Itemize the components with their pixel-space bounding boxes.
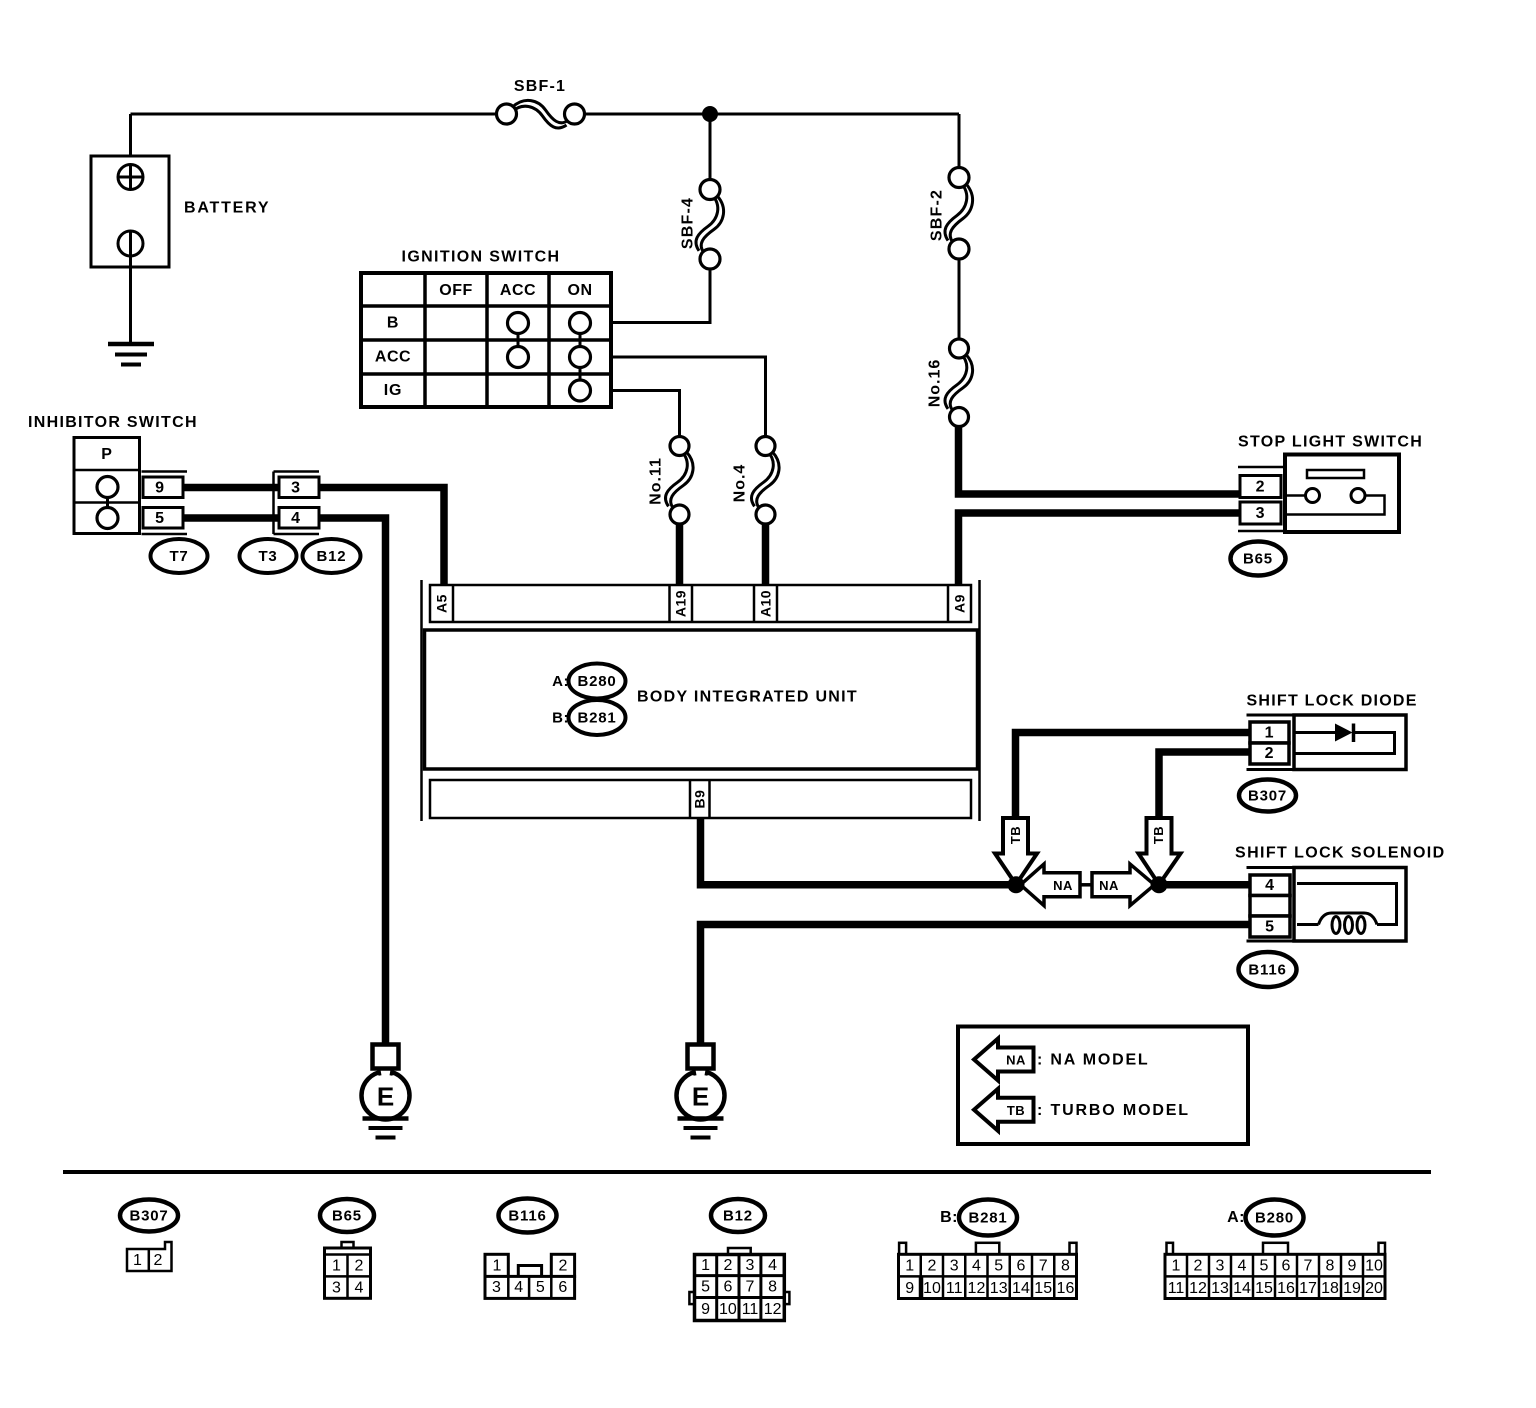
svg-text:8: 8	[1326, 1258, 1335, 1275]
svg-text:4: 4	[291, 510, 301, 527]
svg-text:1: 1	[1172, 1258, 1181, 1275]
wire SBF-2 to No.16	[958, 259, 961, 339]
svg-text:A5: A5	[434, 594, 450, 613]
svg-text:7: 7	[1304, 1258, 1313, 1275]
svg-text:20: 20	[1365, 1280, 1383, 1297]
svg-text:14: 14	[1012, 1280, 1030, 1297]
battery	[91, 156, 169, 344]
svg-text:10: 10	[719, 1301, 737, 1318]
connector blank cell	[1250, 896, 1290, 917]
svg-text:7: 7	[746, 1279, 755, 1296]
legend box	[958, 1027, 1248, 1145]
svg-text:2: 2	[1194, 1258, 1203, 1275]
arrow NA right	[1092, 864, 1155, 906]
wire solenoid pin 5 to ground	[701, 925, 1252, 1047]
svg-text:1: 1	[133, 1252, 142, 1269]
wire NA link	[1080, 883, 1092, 887]
svg-text:1: 1	[701, 1257, 710, 1274]
connector oval B:B281	[552, 700, 625, 735]
svg-text:3: 3	[291, 479, 301, 496]
label SBF-2	[929, 189, 946, 241]
wire pin 4 to ground	[318, 518, 386, 1046]
wire SBF-1 to junction and on to SBF-2 drop	[584, 113, 959, 116]
svg-text:ON: ON	[568, 282, 593, 299]
wire diode pin 1 branch	[1016, 733, 1252, 819]
svg-text:A:: A:	[552, 673, 569, 690]
wire stop light switch pin 3 to A9	[959, 513, 1243, 586]
svg-text:6: 6	[558, 1279, 567, 1296]
svg-text:11: 11	[946, 1280, 963, 1297]
connector oval B65 (pinout)	[320, 1199, 374, 1232]
svg-text:4: 4	[1238, 1258, 1247, 1275]
connector oval B12	[303, 539, 361, 573]
svg-text:B:: B:	[940, 1209, 958, 1226]
shift lock solenoid connector bracket	[1247, 868, 1295, 942]
shift lock solenoid box	[1294, 868, 1406, 942]
svg-text:ACC: ACC	[500, 282, 536, 299]
svg-text:E: E	[377, 1082, 394, 1112]
pin A5	[434, 594, 450, 613]
svg-text:2: 2	[559, 1258, 568, 1275]
svg-text:A10: A10	[758, 590, 774, 617]
wire SBF-4 to ignition switch B	[611, 269, 710, 323]
svg-text:2: 2	[1265, 745, 1275, 762]
svg-text:B280: B280	[577, 673, 616, 690]
svg-text:No.4: No.4	[732, 464, 749, 503]
svg-text:B:: B:	[552, 710, 569, 727]
node B	[1151, 876, 1168, 893]
separator line	[63, 1170, 1431, 1174]
connector oval B65	[1231, 542, 1286, 576]
wire pin 9 to pin 3	[183, 484, 280, 492]
svg-text:9: 9	[905, 1280, 914, 1297]
battery ground	[108, 344, 154, 365]
svg-text:11: 11	[1168, 1280, 1185, 1297]
svg-text:SBF-1: SBF-1	[514, 78, 566, 95]
connector T3 bracket	[274, 472, 320, 535]
wire node B to solenoid pin 4	[1164, 881, 1251, 889]
svg-text:A9: A9	[952, 594, 968, 613]
svg-text:5: 5	[701, 1279, 710, 1296]
svg-text:12: 12	[764, 1301, 782, 1318]
svg-text:5: 5	[1265, 919, 1275, 936]
body integrated unit bracket right	[978, 580, 981, 821]
svg-text:19: 19	[1343, 1280, 1361, 1297]
svg-text:B307: B307	[1248, 788, 1287, 805]
svg-text:2: 2	[355, 1258, 364, 1275]
svg-text:6: 6	[1016, 1258, 1025, 1275]
svg-text:3: 3	[746, 1257, 755, 1274]
connector B280 pinout	[1165, 1243, 1385, 1299]
ignition switch contacts ACC column	[508, 313, 529, 368]
label No.11	[648, 457, 665, 505]
svg-text:8: 8	[1061, 1258, 1070, 1275]
svg-text:8: 8	[768, 1279, 777, 1296]
svg-text:15: 15	[1034, 1280, 1052, 1297]
pin 3	[279, 477, 319, 498]
wire ignition IG to fuse No.11	[611, 391, 680, 437]
svg-text:B12: B12	[317, 548, 347, 565]
wire battery positive vertical	[129, 114, 132, 190]
svg-text:16: 16	[1277, 1280, 1295, 1297]
wire pin 3 to A5	[318, 488, 444, 587]
svg-text:4: 4	[355, 1279, 364, 1296]
svg-text:SHIFT LOCK SOLENOID: SHIFT LOCK SOLENOID	[1235, 845, 1446, 862]
svg-text:1: 1	[493, 1258, 502, 1275]
wire fuse No.11 to A19	[676, 524, 684, 586]
connector B281 pinout	[899, 1243, 1077, 1299]
svg-text:SHIFT LOCK DIODE: SHIFT LOCK DIODE	[1247, 693, 1418, 710]
shift lock diode connector bracket	[1247, 715, 1295, 770]
svg-text:B65: B65	[1243, 551, 1273, 568]
wire fuse No.4 to A10	[762, 524, 770, 586]
stop light switch connector bracket	[1238, 467, 1286, 531]
svg-text:No.16: No.16	[927, 359, 944, 408]
connector oval B116 (pinout)	[499, 1199, 557, 1233]
svg-text:17: 17	[1299, 1280, 1317, 1297]
svg-text:9: 9	[701, 1301, 710, 1318]
arrow TB right	[1139, 818, 1181, 885]
svg-text:9: 9	[1348, 1258, 1357, 1275]
svg-text:: TURBO MODEL: : TURBO MODEL	[1037, 1102, 1190, 1119]
svg-text:INHIBITOR SWITCH: INHIBITOR SWITCH	[28, 414, 198, 431]
ground E left	[362, 1045, 410, 1138]
svg-text:1: 1	[1265, 725, 1275, 742]
ground E right	[677, 1045, 725, 1138]
svg-text:T7: T7	[169, 548, 188, 565]
svg-text:5: 5	[536, 1279, 545, 1296]
wire B9 to node A	[701, 817, 1014, 885]
svg-text:B: B	[387, 315, 399, 332]
pin A19	[673, 590, 689, 617]
solenoid coil L1	[1297, 884, 1397, 934]
svg-text:T3: T3	[258, 548, 277, 565]
pin 4	[279, 508, 319, 529]
svg-text:4: 4	[972, 1258, 981, 1275]
svg-text:12: 12	[968, 1280, 986, 1297]
fuse No.11	[665, 437, 693, 525]
inhibitor switch	[74, 438, 140, 534]
svg-text:P: P	[101, 446, 112, 463]
svg-text:14: 14	[1233, 1280, 1251, 1297]
svg-text:B12: B12	[723, 1208, 753, 1225]
svg-text:TB: TB	[1151, 826, 1166, 844]
legend arrow TB	[974, 1089, 1034, 1131]
fuse SBF-4	[696, 180, 724, 270]
svg-text:TB: TB	[1007, 1103, 1025, 1118]
svg-text:12: 12	[1189, 1280, 1207, 1297]
pin 9	[143, 477, 183, 498]
svg-text:5: 5	[994, 1258, 1003, 1275]
svg-text:STOP LIGHT SWITCH: STOP LIGHT SWITCH	[1238, 434, 1423, 451]
svg-text:B280: B280	[1255, 1210, 1294, 1227]
svg-text:6: 6	[723, 1279, 732, 1296]
svg-text:A:: A:	[1227, 1209, 1245, 1226]
svg-text:2: 2	[1256, 479, 1266, 496]
body integrated unit connector strip top	[430, 585, 971, 622]
fuse No.4	[751, 437, 779, 525]
svg-text:3: 3	[1256, 505, 1266, 522]
pin 3	[1240, 502, 1281, 524]
svg-text:2: 2	[927, 1258, 936, 1275]
node A	[1008, 876, 1025, 893]
arrow TB left	[995, 818, 1037, 885]
shift lock diode box	[1294, 715, 1406, 770]
connector oval B307 (pinout)	[120, 1200, 178, 1232]
ignition switch contacts ON column	[570, 313, 591, 402]
svg-text:B307: B307	[129, 1208, 168, 1225]
svg-text:13: 13	[990, 1280, 1008, 1297]
svg-text:NA: NA	[1099, 878, 1119, 893]
svg-text:SBF-2: SBF-2	[929, 189, 946, 241]
svg-text:4: 4	[768, 1257, 777, 1274]
wire pin 5 to pin 4	[183, 514, 280, 522]
connector oval T7	[151, 539, 208, 573]
wire ignition ACC to fuse No.4	[611, 357, 766, 437]
connector B307 pinout	[127, 1242, 172, 1271]
svg-text:ACC: ACC	[375, 349, 411, 366]
svg-text:1: 1	[905, 1258, 914, 1275]
svg-text:NA: NA	[1006, 1053, 1026, 1068]
label SBF-4	[680, 197, 697, 249]
fuse SBF-1	[497, 100, 585, 128]
svg-text:IG: IG	[384, 382, 403, 399]
svg-text:B116: B116	[1248, 962, 1286, 979]
connector oval B116	[1239, 952, 1297, 987]
fuse No.16	[945, 339, 973, 427]
svg-text:B116: B116	[508, 1208, 546, 1225]
svg-text:10: 10	[1365, 1258, 1383, 1275]
svg-text:IGNITION SWITCH: IGNITION SWITCH	[402, 249, 561, 266]
svg-text:BODY INTEGRATED UNIT: BODY INTEGRATED UNIT	[637, 689, 858, 706]
svg-text:11: 11	[742, 1301, 759, 1318]
label No.16	[927, 359, 944, 408]
svg-text:NA: NA	[1053, 878, 1073, 893]
wire bus corner down to SBF-2	[958, 114, 961, 168]
connector oval T3	[240, 539, 297, 573]
svg-text:SBF-4: SBF-4	[680, 197, 697, 249]
svg-text:A19: A19	[673, 590, 689, 617]
svg-text:3: 3	[1216, 1258, 1225, 1275]
body integrated unit connector strip bottom	[430, 780, 971, 818]
connector B65 pinout	[325, 1242, 371, 1298]
svg-text:: NA MODEL: : NA MODEL	[1037, 1052, 1150, 1069]
connector T7 bracket	[142, 472, 188, 535]
svg-text:3: 3	[332, 1279, 341, 1296]
body integrated unit box	[425, 630, 978, 769]
svg-text:B9: B9	[692, 790, 708, 809]
wire battery positive to SBF-1	[131, 113, 498, 116]
fuse SBF-2	[945, 168, 973, 260]
svg-text:TB: TB	[1008, 826, 1023, 844]
svg-text:B281: B281	[577, 710, 616, 727]
wire junction to SBF-4	[709, 114, 712, 180]
svg-text:4: 4	[1265, 877, 1275, 894]
svg-text:BATTERY: BATTERY	[184, 200, 270, 217]
svg-text:B65: B65	[332, 1208, 362, 1225]
svg-text:2: 2	[723, 1257, 732, 1274]
svg-text:4: 4	[514, 1279, 523, 1296]
pin A10	[758, 590, 774, 617]
connector oval B307	[1239, 780, 1296, 812]
svg-text:15: 15	[1255, 1280, 1273, 1297]
svg-text:18: 18	[1321, 1280, 1339, 1297]
svg-text:1: 1	[332, 1258, 341, 1275]
svg-text:9: 9	[155, 479, 165, 496]
junction node	[702, 106, 718, 122]
svg-text:16: 16	[1057, 1280, 1075, 1297]
svg-text:7: 7	[1039, 1258, 1048, 1275]
pin A9	[952, 594, 968, 613]
body integrated unit bracket left	[420, 580, 423, 821]
svg-text:2: 2	[154, 1252, 163, 1269]
pin 1	[1250, 722, 1289, 743]
svg-text:B281: B281	[968, 1210, 1007, 1227]
wire No.16 to stop light switch pin 2	[959, 427, 1243, 495]
svg-text:3: 3	[950, 1258, 959, 1275]
connector oval B:B281 (pinout)	[940, 1200, 1017, 1236]
ignition switch table	[361, 273, 611, 407]
pin 2	[1250, 743, 1289, 764]
arrow NA left	[1021, 864, 1081, 906]
svg-text:OFF: OFF	[439, 282, 473, 299]
wire diode pin 2 branch	[1159, 752, 1251, 818]
pin B9	[692, 790, 708, 809]
svg-text:10: 10	[923, 1280, 941, 1297]
svg-text:6: 6	[1282, 1258, 1291, 1275]
connector oval A:B280	[552, 664, 625, 699]
diode D1	[1294, 724, 1395, 754]
connector B116 pinout	[485, 1254, 575, 1298]
stop light switch	[1285, 455, 1399, 533]
pin 5	[1250, 916, 1290, 937]
svg-text:5: 5	[155, 510, 165, 527]
pin 2	[1240, 476, 1281, 498]
svg-text:No.11: No.11	[648, 457, 665, 505]
pin 5	[143, 508, 183, 529]
label No.4	[732, 464, 749, 503]
svg-text:E: E	[692, 1082, 709, 1112]
connector B12 pinout	[689, 1248, 789, 1321]
svg-text:13: 13	[1211, 1280, 1229, 1297]
connector oval A:B280 (pinout)	[1227, 1200, 1303, 1236]
legend arrow NA	[974, 1039, 1034, 1081]
svg-text:3: 3	[492, 1279, 501, 1296]
svg-text:5: 5	[1260, 1258, 1269, 1275]
pin 4	[1250, 875, 1290, 896]
connector oval B12 (pinout)	[711, 1199, 765, 1232]
